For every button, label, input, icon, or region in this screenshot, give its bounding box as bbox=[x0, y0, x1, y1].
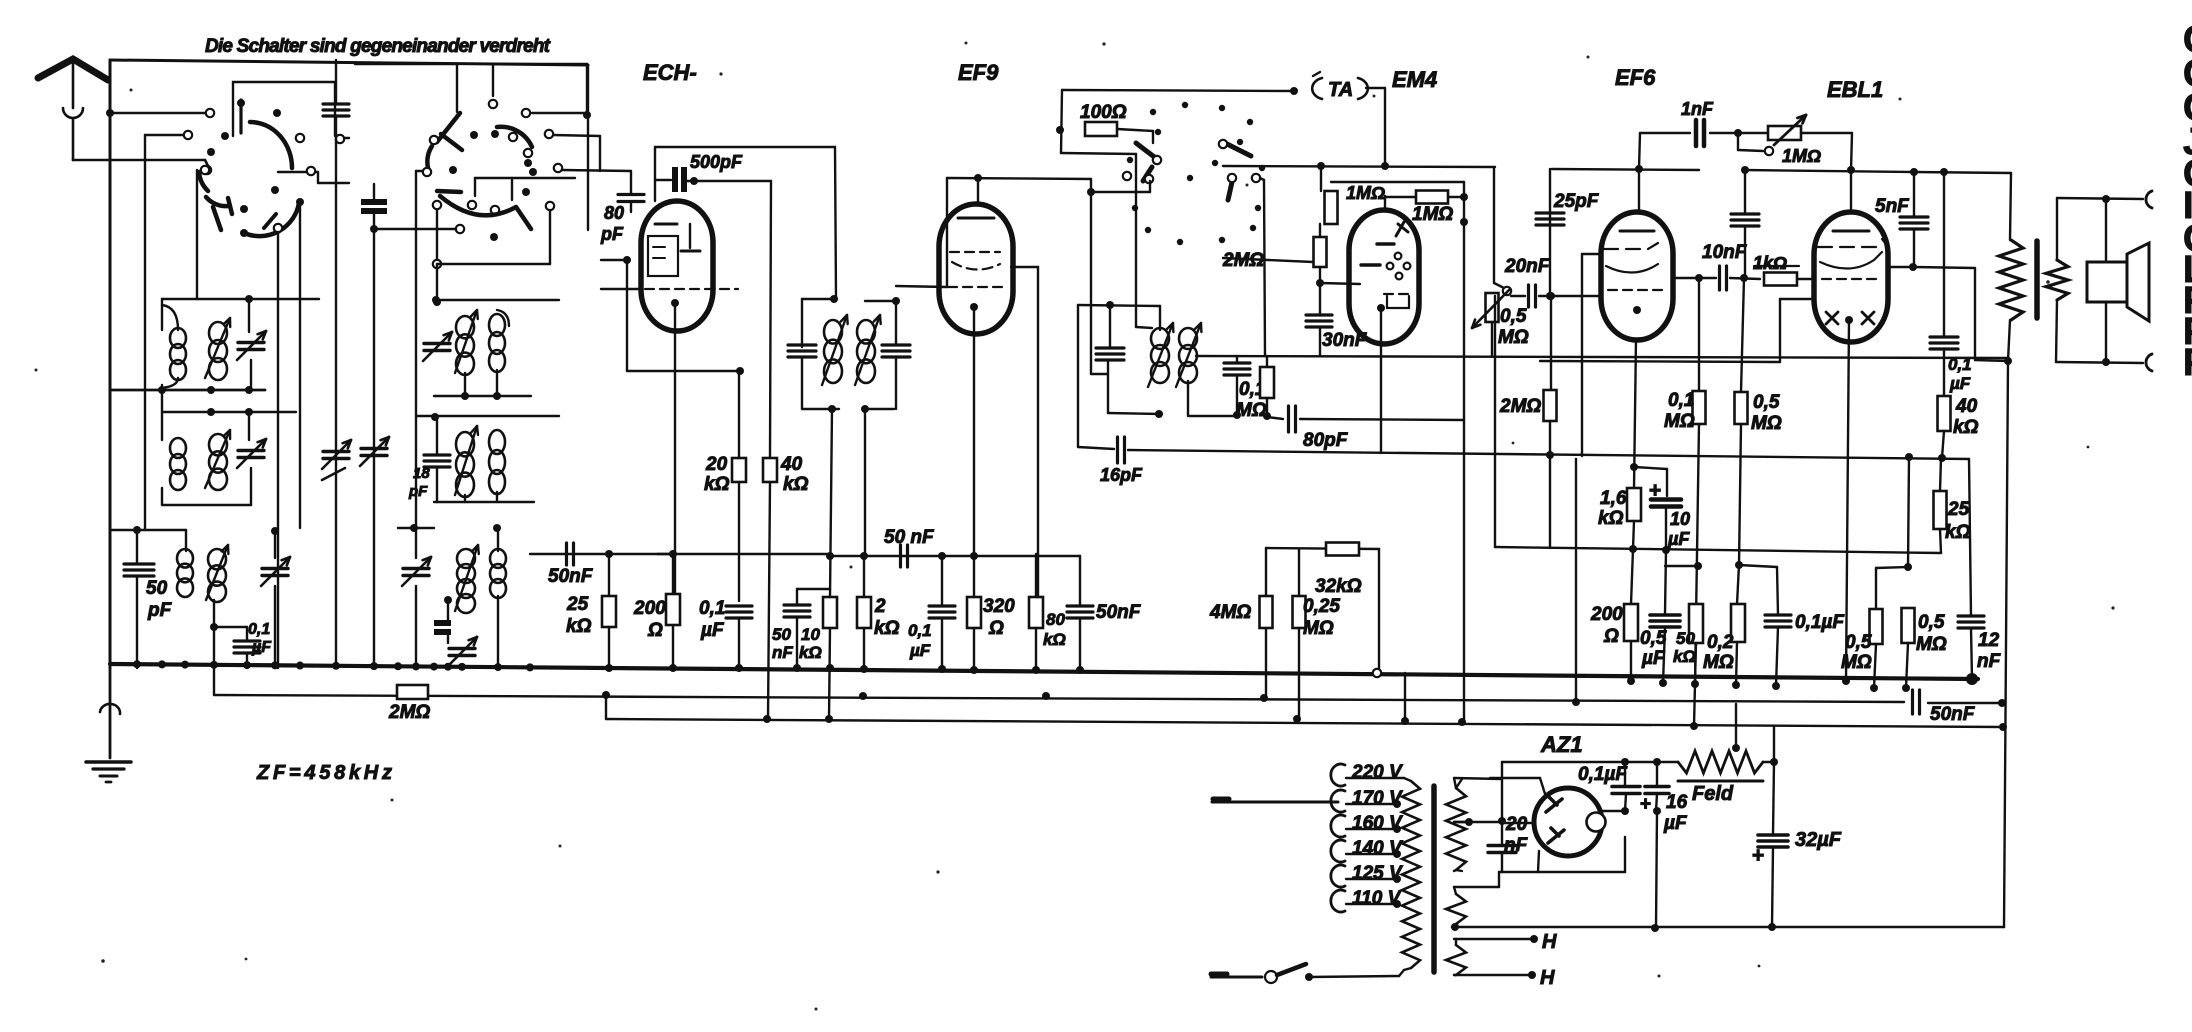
svg-text:kΩ: kΩ bbox=[1598, 508, 1624, 529]
svg-text:nF: nF bbox=[1977, 651, 2002, 672]
svg-text:20: 20 bbox=[1505, 814, 1528, 835]
svg-text:50: 50 bbox=[1676, 629, 1695, 648]
svg-text:µF: µF bbox=[909, 641, 931, 660]
svg-text:2MΩ: 2MΩ bbox=[1499, 396, 1541, 417]
svg-text:20: 20 bbox=[705, 454, 728, 475]
svg-text:10: 10 bbox=[801, 625, 820, 644]
svg-text:Ω: Ω bbox=[988, 618, 1004, 639]
svg-text:100Ω: 100Ω bbox=[1080, 102, 1127, 123]
svg-text:500pF: 500pF bbox=[690, 152, 743, 172]
svg-text:pF: pF bbox=[408, 483, 428, 500]
svg-text:EBL1: EBL1 bbox=[1827, 77, 1883, 102]
svg-text:EF9: EF9 bbox=[958, 60, 999, 85]
svg-text:40: 40 bbox=[1955, 396, 1978, 417]
svg-text:0,5: 0,5 bbox=[1845, 632, 1872, 653]
svg-text:25pF: 25pF bbox=[1553, 191, 1600, 212]
svg-text:µF: µF bbox=[1949, 374, 1971, 393]
svg-text:ZF=458kHz: ZF=458kHz bbox=[256, 762, 392, 784]
svg-text:1MΩ: 1MΩ bbox=[1412, 204, 1453, 225]
svg-text:0,1: 0,1 bbox=[1668, 390, 1694, 411]
svg-text:H: H bbox=[1540, 967, 1555, 989]
svg-text:0,1: 0,1 bbox=[908, 621, 932, 640]
svg-text:MΩ: MΩ bbox=[1841, 652, 1872, 673]
svg-text:30nF: 30nF bbox=[1322, 330, 1368, 351]
svg-text:12: 12 bbox=[1978, 630, 2000, 651]
svg-text:2: 2 bbox=[874, 596, 886, 617]
svg-text:µF: µF bbox=[1667, 529, 1690, 549]
svg-text:TA: TA bbox=[1328, 79, 1353, 101]
svg-text:0,5: 0,5 bbox=[1753, 392, 1780, 413]
svg-text:0,2: 0,2 bbox=[1707, 632, 1734, 653]
svg-text:MΩ: MΩ bbox=[1498, 327, 1529, 348]
svg-text:220 V: 220 V bbox=[1351, 762, 1403, 783]
svg-text:Ω: Ω bbox=[647, 620, 663, 641]
svg-text:16pF: 16pF bbox=[1100, 465, 1143, 485]
svg-text:80: 80 bbox=[604, 203, 624, 223]
svg-text:MΩ: MΩ bbox=[1916, 634, 1947, 655]
svg-text:32kΩ: 32kΩ bbox=[1315, 576, 1362, 597]
svg-text:kΩ: kΩ bbox=[1953, 417, 1979, 438]
svg-text:50nF: 50nF bbox=[548, 566, 594, 587]
svg-text:H: H bbox=[1542, 931, 1557, 953]
svg-text:1MΩ: 1MΩ bbox=[1782, 146, 1821, 166]
svg-text:MΩ: MΩ bbox=[1303, 618, 1334, 639]
svg-text:1MΩ: 1MΩ bbox=[1346, 183, 1385, 203]
svg-text:+: + bbox=[1752, 844, 1764, 867]
svg-text:MΩ: MΩ bbox=[1703, 652, 1734, 673]
svg-text:0,1µF: 0,1µF bbox=[1795, 612, 1845, 633]
svg-text:200: 200 bbox=[1590, 604, 1623, 625]
svg-text:ECH-: ECH- bbox=[643, 60, 697, 85]
svg-text:50: 50 bbox=[772, 625, 791, 644]
svg-text:0,1: 0,1 bbox=[248, 621, 270, 638]
svg-text:kΩ: kΩ bbox=[799, 643, 822, 662]
svg-text:320: 320 bbox=[983, 596, 1015, 617]
svg-text:1,6: 1,6 bbox=[1600, 488, 1627, 509]
svg-text:µF: µF bbox=[1663, 813, 1688, 834]
svg-text:nF: nF bbox=[772, 643, 793, 662]
svg-text:AZ1: AZ1 bbox=[1540, 732, 1583, 757]
svg-text:0,1µF: 0,1µF bbox=[1578, 764, 1628, 785]
svg-text:0,1: 0,1 bbox=[1948, 355, 1972, 374]
svg-text:5nF: 5nF bbox=[1875, 196, 1910, 217]
svg-text:Die Schalter sind gegeneinande: Die Schalter sind gegeneinander verdreht bbox=[205, 36, 551, 57]
svg-text:0,5: 0,5 bbox=[1500, 306, 1527, 327]
svg-text:50nF: 50nF bbox=[1930, 704, 1976, 725]
svg-text:+: + bbox=[1640, 794, 1651, 815]
svg-text:18: 18 bbox=[413, 465, 430, 482]
svg-text:kΩ: kΩ bbox=[874, 618, 900, 639]
svg-text:Feld: Feld bbox=[1692, 783, 1734, 805]
svg-text:1nF: 1nF bbox=[1681, 99, 1714, 119]
svg-text:1kΩ: 1kΩ bbox=[1753, 253, 1787, 273]
svg-text:80: 80 bbox=[1046, 610, 1065, 629]
svg-text:kΩ: kΩ bbox=[1945, 522, 1971, 543]
svg-text:Ω: Ω bbox=[1603, 626, 1619, 647]
svg-text:2MΩ: 2MΩ bbox=[388, 702, 430, 723]
svg-text:µF: µF bbox=[700, 620, 725, 641]
svg-text:25: 25 bbox=[1947, 499, 1970, 520]
svg-text:200: 200 bbox=[633, 598, 666, 619]
svg-text:kΩ: kΩ bbox=[704, 474, 730, 495]
svg-text:32µF: 32µF bbox=[1795, 829, 1842, 851]
svg-text:MΩ: MΩ bbox=[1751, 413, 1782, 434]
svg-text:25: 25 bbox=[566, 594, 589, 615]
svg-text:µF: µF bbox=[1641, 648, 1666, 669]
svg-text:10: 10 bbox=[1670, 509, 1690, 529]
svg-text:50 nF: 50 nF bbox=[884, 527, 935, 548]
svg-text:EF6: EF6 bbox=[1615, 65, 1656, 90]
svg-text:MΩ: MΩ bbox=[1664, 411, 1695, 432]
svg-text:50nF: 50nF bbox=[1096, 602, 1142, 623]
svg-text:40: 40 bbox=[780, 454, 803, 475]
svg-text:50: 50 bbox=[146, 578, 168, 599]
svg-text:kΩ: kΩ bbox=[783, 474, 809, 495]
svg-text:kΩ: kΩ bbox=[1673, 647, 1696, 666]
svg-text:0,5: 0,5 bbox=[1640, 628, 1667, 649]
svg-text:pF: pF bbox=[600, 224, 624, 244]
svg-text:EM4: EM4 bbox=[1392, 67, 1437, 92]
svg-text:0,25: 0,25 bbox=[1303, 596, 1340, 617]
svg-text:20nF: 20nF bbox=[1504, 256, 1551, 277]
svg-text:10nF: 10nF bbox=[1702, 242, 1748, 263]
svg-text:2MΩ: 2MΩ bbox=[1222, 250, 1264, 271]
svg-text:pF: pF bbox=[147, 600, 173, 621]
svg-text:0,1: 0,1 bbox=[699, 598, 725, 619]
svg-text:kΩ: kΩ bbox=[566, 616, 592, 637]
svg-text:80pF: 80pF bbox=[1303, 430, 1349, 451]
svg-text:P: P bbox=[2183, 342, 2192, 384]
svg-text:0,5: 0,5 bbox=[1918, 612, 1945, 633]
svg-text:MΩ: MΩ bbox=[1236, 400, 1267, 421]
svg-text:4MΩ: 4MΩ bbox=[1209, 602, 1251, 623]
svg-text:16: 16 bbox=[1666, 792, 1688, 813]
svg-text:kΩ: kΩ bbox=[1043, 630, 1066, 649]
